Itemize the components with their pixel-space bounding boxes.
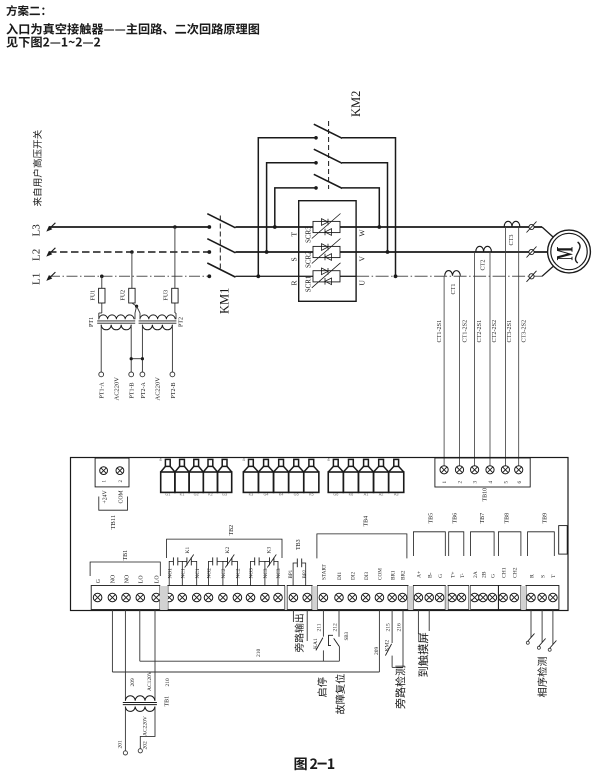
svg-text:K3: K3 [266, 547, 272, 554]
wire BP2 down [306, 610, 308, 642]
connector plug 3-5 [394, 459, 399, 466]
svg-text:T+: T+ [450, 571, 456, 578]
connector W to motor [529, 224, 534, 229]
soft starter SCR block [299, 201, 356, 302]
wire L1 incoming (dash-dot) [49, 275, 208, 277]
terminal box TB5 [413, 586, 445, 610]
svg-text:M: M [553, 247, 578, 261]
terminal group TB1 bracket [90, 562, 160, 576]
terminal box TB4 [318, 586, 409, 610]
svg-text:DI2: DI2 [351, 572, 357, 580]
svg-text:5: 5 [504, 481, 510, 484]
svg-text:G: G [491, 574, 497, 578]
svg-text:CT2-2S2: CT2-2S2 [491, 320, 498, 343]
svg-text:A1: A1 [364, 492, 369, 496]
svg-text:201: 201 [118, 740, 124, 749]
svg-text:202: 202 [142, 741, 148, 750]
terminal TB10-2 [455, 466, 463, 474]
arrow L1 source [51, 272, 56, 277]
svg-text:G5: G5 [294, 492, 299, 496]
connector plug 2-5 [309, 459, 314, 466]
wire T to SCR block [236, 226, 543, 228]
contactor KM2 pole 3 (T-W bypass) [275, 188, 316, 227]
svg-text:W: W [358, 229, 367, 237]
terminal group TB7 bracket [471, 532, 495, 556]
terminal group TB9 bracket [528, 532, 555, 556]
fuse FU3 [173, 225, 177, 229]
svg-text:211: 211 [317, 623, 323, 631]
wire 212 (DI1) [338, 610, 340, 637]
svg-text:KM1: KM1 [218, 288, 232, 314]
fuse FU1 [100, 275, 104, 279]
svg-text:212: 212 [332, 623, 338, 632]
svg-text:CT2-2S1: CT2-2S1 [476, 320, 483, 343]
svg-text:LO: LO [155, 575, 161, 583]
svg-text:CH2: CH2 [513, 567, 519, 578]
svg-text:A2: A2 [379, 492, 384, 496]
wire net 210 rail [140, 660, 340, 662]
svg-text:TB4: TB4 [363, 516, 369, 527]
TB11 bracket [99, 497, 128, 511]
svg-text:L1: L1 [31, 273, 43, 285]
svg-text:PT1-B: PT1-B [130, 382, 136, 398]
svg-text:NC2: NC2 [221, 568, 227, 578]
terminal group TB8 bracket [498, 532, 521, 556]
wire L2 incoming (dashed) [49, 251, 208, 253]
terminal box TB9 [526, 586, 559, 610]
svg-text:L3: L3 [31, 224, 43, 237]
terminal TB10-3 [471, 466, 479, 474]
svg-text:SCR3: SCR3 [304, 226, 312, 243]
svg-text:DI1: DI1 [337, 572, 343, 580]
terminal group TB2 bracket [167, 539, 282, 558]
contactor KM1 [207, 225, 211, 229]
pushbutton SB3 [329, 635, 334, 645]
control transformer TB1 [125, 696, 154, 701]
svg-text:CT1: CT1 [450, 283, 457, 294]
svg-text:NO: NO [124, 575, 130, 583]
svg-text:TB2: TB2 [229, 525, 235, 536]
svg-text:209: 209 [374, 647, 380, 656]
wire R to SCR block [236, 275, 357, 277]
svg-text:FU3: FU3 [164, 290, 170, 301]
transformer PT1 [99, 315, 134, 319]
svg-text:FU2: FU2 [121, 290, 127, 301]
svg-text:A+: A+ [417, 571, 423, 578]
wire 211 (START) [322, 610, 324, 637]
svg-text:CT1-2S1: CT1-2S1 [436, 320, 443, 343]
svg-text:TB5: TB5 [428, 513, 434, 524]
svg-text:AC220V: AC220V [155, 377, 162, 401]
svg-text:T-: T- [460, 573, 466, 578]
svg-text:TB9: TB9 [543, 513, 549, 524]
svg-text:PT1-A: PT1-A [100, 382, 106, 399]
label 相序检测 [537, 657, 547, 697]
svg-text:2: 2 [458, 481, 464, 484]
svg-text:G6: G6 [333, 492, 338, 496]
contact BP (bypass output) [293, 563, 297, 586]
svg-text:PT2-A: PT2-A [141, 382, 147, 399]
svg-text:CT3: CT3 [508, 234, 515, 245]
svg-text:T: T [290, 232, 299, 237]
svg-text:G: G [438, 574, 444, 578]
connector plug 2-1 [249, 459, 254, 466]
connector V to motor [529, 249, 534, 254]
terminal block TB11 [95, 458, 129, 487]
svg-text:COM: COM [119, 490, 125, 503]
svg-text:NC1: NC1 [181, 568, 187, 578]
svg-text:R: R [290, 280, 299, 285]
small module on right edge [559, 526, 568, 555]
svg-text:NC3: NC3 [263, 568, 269, 578]
svg-text:SCR1: SCR1 [304, 275, 312, 292]
wire R phase-detect [530, 610, 532, 638]
wire L3 incoming [49, 226, 208, 228]
current transformer CT2 [476, 246, 492, 251]
TB1 primary right lead [140, 707, 155, 749]
svg-text:CT3-2S2: CT3-2S2 [520, 320, 527, 343]
terminal TB10-1 [440, 466, 448, 474]
svg-text:DI3: DI3 [364, 572, 370, 580]
svg-text:6: 6 [517, 481, 523, 484]
arrow L2 source [51, 248, 56, 253]
controller board outline [71, 458, 569, 611]
svg-text:FU1: FU1 [91, 290, 97, 301]
svg-text:G2: G2 [194, 492, 199, 496]
svg-text:AC220V: AC220V [114, 377, 121, 401]
KM1 linkage (dashed) [219, 216, 221, 271]
wire S to SCR block [236, 251, 548, 253]
label 启停 [317, 678, 326, 698]
svg-text:G1: G1 [165, 492, 170, 496]
svg-text:K3: K3 [249, 492, 254, 496]
wire A+ down [417, 610, 419, 635]
connector plug 1-5 [222, 459, 227, 466]
fuse FU2 [130, 250, 134, 254]
svg-text:COM: COM [378, 568, 384, 580]
transformer PT2 [140, 315, 175, 319]
label 旁路检测 [395, 666, 405, 709]
terminal TB10-6 [515, 466, 523, 474]
svg-text:SCR2: SCR2 [304, 251, 312, 268]
wire LO-2 down to TB1 transformer [154, 610, 156, 701]
connector plug 2-3 [279, 459, 284, 466]
wire NO-1 down [111, 610, 113, 673]
svg-text:BP1: BP1 [289, 569, 294, 578]
svg-text:CH1: CH1 [501, 567, 507, 578]
motor M [548, 230, 591, 273]
wire S phase-detect [541, 610, 543, 643]
svg-text:L2: L2 [31, 249, 43, 261]
connector plug 3-3 [364, 459, 369, 466]
svg-text:B-: B- [428, 572, 434, 578]
svg-text:216: 216 [396, 623, 402, 632]
svg-text:KA1: KA1 [313, 638, 319, 649]
svg-text:BR1: BR1 [390, 570, 396, 580]
connector plug 2-2 [264, 459, 269, 466]
svg-text:NC1: NC1 [195, 568, 201, 578]
board lower-edge separators [160, 586, 168, 610]
terminal box TB8 [498, 586, 521, 610]
svg-text:V: V [358, 256, 367, 262]
svg-text:K6: K6 [349, 492, 354, 496]
svg-text:2B: 2B [481, 571, 487, 578]
svg-text:KM2: KM2 [349, 91, 363, 117]
svg-text:215: 215 [385, 623, 391, 632]
thyristor pair SCR3 [313, 221, 340, 232]
label 到触摸屏 [418, 633, 428, 677]
title text 方案二 [6, 5, 44, 16]
label 旁路输出 [295, 614, 304, 652]
title text line3 [6, 37, 100, 48]
svg-text:TB6: TB6 [452, 513, 458, 524]
wire BP1 down [292, 610, 294, 623]
PT secondary bridge [131, 358, 142, 360]
connector plug 1-2 [180, 459, 185, 466]
label 故障复位 [335, 674, 344, 714]
svg-text:+24V: +24V [102, 489, 108, 503]
label 来自用户高压开关 [33, 130, 42, 206]
svg-text:A3: A3 [394, 492, 399, 496]
svg-text:BP2: BP2 [303, 569, 308, 578]
svg-text:TB8: TB8 [504, 513, 510, 524]
svg-text:TB11: TB11 [110, 515, 117, 530]
svg-text:NO2: NO2 [207, 568, 213, 579]
svg-text:KM2: KM2 [384, 640, 390, 652]
terminal group TB6 bracket [449, 532, 464, 556]
wire NO-2 down to TB1 transformer [124, 610, 126, 701]
svg-text:K4: K4 [279, 492, 284, 496]
svg-text:TB10: TB10 [483, 488, 489, 502]
svg-text:S: S [540, 575, 546, 578]
svg-text:PT2-B: PT2-B [171, 382, 177, 398]
caption 图2—1 [295, 757, 307, 770]
svg-text:AC120V: AC120V [147, 671, 153, 691]
wire net 209 rail [112, 671, 379, 673]
svg-text:K1: K1 [180, 492, 185, 496]
terminal box TB6 [448, 586, 469, 610]
svg-text:TB7: TB7 [480, 513, 486, 524]
svg-text:NO: NO [111, 575, 117, 583]
svg-text:S: S [290, 257, 299, 261]
PT secondary terminals [100, 325, 102, 372]
terminal box TB7 [471, 586, 499, 610]
svg-text:U: U [358, 280, 367, 286]
terminal box TB3 [287, 586, 312, 610]
PT primary wires [98, 313, 100, 319]
wire 216 (BR2) [402, 610, 404, 668]
auxiliary contact KM2 [385, 644, 391, 656]
svg-text:CT2: CT2 [480, 259, 487, 270]
svg-text:3: 3 [473, 481, 479, 484]
svg-text:R: R [529, 574, 535, 578]
wire 215-216 bottom link [392, 666, 403, 668]
contactor KM2 pole 1 (R-U bypass) [258, 138, 316, 276]
svg-text:G4: G4 [263, 492, 268, 496]
svg-text:CT3-2S1: CT3-2S1 [506, 320, 513, 343]
wire LO-1 down [139, 610, 141, 662]
svg-text:4: 4 [488, 481, 494, 484]
terminal group TB4 bracket [317, 534, 407, 559]
svg-text:START: START [322, 563, 328, 580]
svg-text:PT1: PT1 [89, 317, 95, 327]
title text line2 [6, 23, 259, 35]
svg-text:K1: K1 [185, 547, 191, 554]
svg-text:1: 1 [442, 481, 448, 484]
svg-text:2A: 2A [473, 571, 479, 578]
svg-text:CT1-2S2: CT1-2S2 [462, 320, 469, 343]
wire T phase-detect [552, 610, 554, 645]
svg-text:G3: G3 [222, 492, 227, 496]
svg-text:BR2: BR2 [401, 570, 407, 580]
svg-text:210: 210 [165, 678, 171, 687]
svg-text:210: 210 [256, 649, 262, 658]
svg-text:TB1: TB1 [165, 696, 171, 707]
svg-text:LO: LO [139, 575, 145, 583]
svg-text:K2: K2 [225, 547, 231, 554]
contactor KM2 pole 2 (S-V bypass) [267, 163, 316, 252]
svg-text:NO3: NO3 [249, 568, 255, 579]
svg-text:NC3: NC3 [276, 568, 282, 578]
connector plug 1-1 [165, 459, 170, 466]
svg-text:PT2: PT2 [179, 317, 185, 327]
terminal TB10-5 [501, 466, 509, 474]
svg-text:NO1: NO1 [167, 568, 173, 579]
connector U to motor [529, 274, 534, 279]
wire U to motor (dash-dot) [356, 275, 542, 277]
wire B- down [428, 610, 430, 632]
svg-text:K5: K5 [309, 492, 314, 496]
thyristor pair SCR1 [313, 271, 340, 282]
thyristor pair SCR2 [313, 246, 340, 257]
svg-text:NC2: NC2 [236, 568, 242, 578]
connector plug 3-1 [333, 459, 338, 466]
terminal block TB10 [435, 458, 530, 487]
wire COM down (209) [378, 610, 380, 673]
svg-text:SB3: SB3 [345, 631, 350, 640]
svg-text:AC220V: AC220V [142, 716, 148, 736]
connector plug 2-4 [294, 459, 299, 466]
current transformer CT1 [445, 271, 461, 276]
connector plug 1-4 [208, 459, 213, 466]
svg-text:TB3: TB3 [296, 539, 302, 550]
svg-text:G: G [96, 579, 102, 583]
current transformer CT3 [504, 221, 520, 226]
connector plug 3-4 [379, 459, 384, 466]
connector plug 3-2 [349, 459, 354, 466]
relay contact KA1 [316, 638, 323, 651]
TB1 primary left lead [124, 707, 126, 751]
terminal TB10-4 [486, 466, 494, 474]
KM2 linkage (dashed) [328, 121, 330, 189]
terminal group TB5 bracket [413, 532, 445, 556]
svg-text:K2: K2 [208, 492, 213, 496]
connector plug 1-3 [194, 459, 199, 466]
wire 215 (BR1) [391, 610, 393, 644]
arrow L3 source [51, 223, 56, 228]
terminal TB11-2 [116, 467, 124, 475]
svg-text:209: 209 [130, 678, 136, 687]
svg-text:T: T [551, 574, 557, 578]
terminal TB11-1 [100, 467, 108, 475]
terminal box TB1 [91, 586, 160, 610]
terminal box TB2 [168, 586, 285, 610]
svg-text:TB1: TB1 [123, 550, 129, 561]
